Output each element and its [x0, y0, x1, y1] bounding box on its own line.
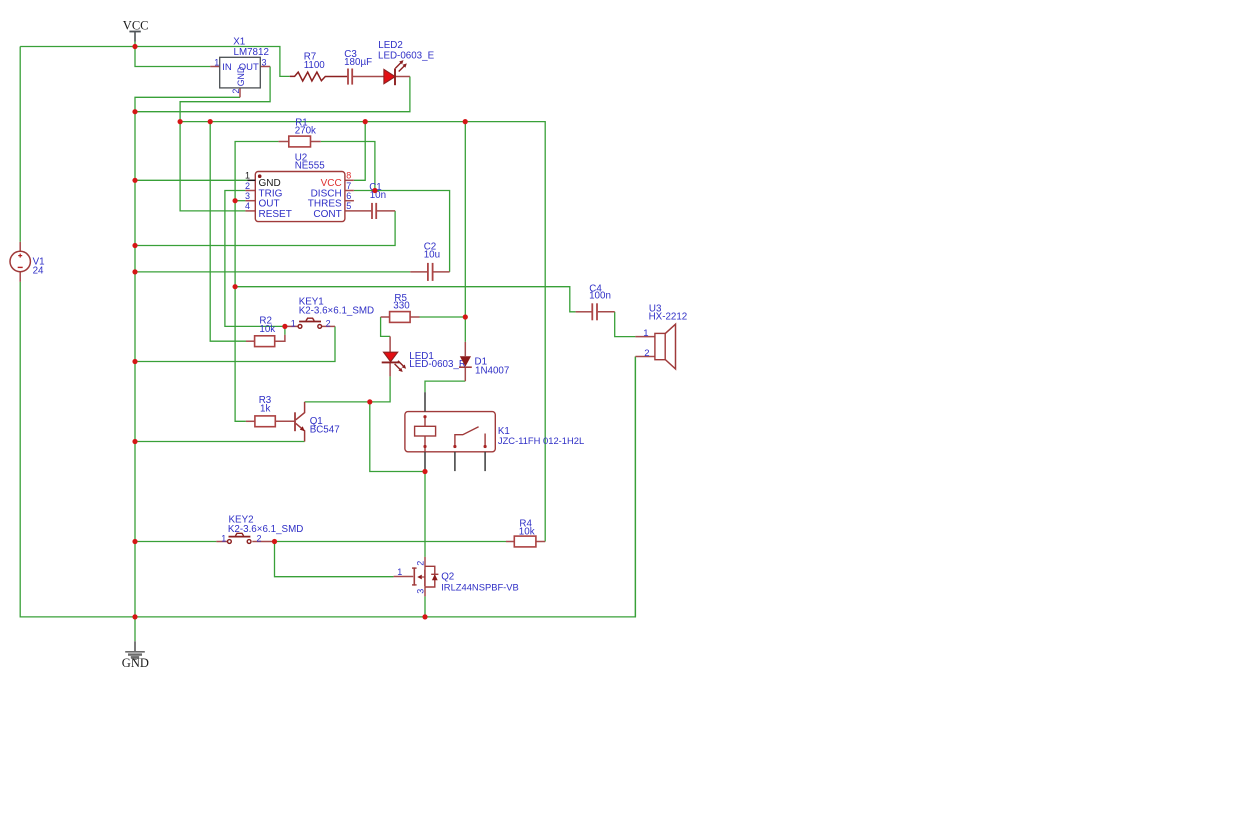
svg-text:GND: GND [236, 67, 246, 87]
svg-text:1: 1 [643, 328, 648, 339]
svg-text:CONT: CONT [313, 209, 341, 220]
svg-text:7: 7 [346, 181, 351, 191]
svg-text:2: 2 [231, 89, 241, 94]
svg-text:330: 330 [393, 301, 410, 312]
svg-text:4: 4 [245, 201, 250, 211]
svg-text:2: 2 [415, 561, 425, 566]
svg-text:JZC-11FH 012-1H2L: JZC-11FH 012-1H2L [498, 435, 584, 446]
svg-text:1: 1 [221, 533, 226, 543]
svg-text:10u: 10u [424, 250, 440, 261]
svg-text:1: 1 [214, 57, 219, 67]
svg-text:1100: 1100 [304, 60, 326, 71]
svg-text:100n: 100n [589, 291, 611, 302]
svg-text:3: 3 [415, 589, 425, 594]
svg-text:2: 2 [245, 181, 250, 191]
svg-text:K2-3.6×6.1_SMD: K2-3.6×6.1_SMD [299, 306, 374, 317]
svg-text:10k: 10k [519, 527, 535, 538]
svg-text:5: 5 [346, 201, 351, 211]
svg-text:VCC: VCC [123, 18, 149, 32]
svg-text:1k: 1k [260, 403, 270, 414]
svg-text:1: 1 [397, 567, 402, 577]
svg-text:6: 6 [346, 191, 351, 201]
svg-text:2: 2 [326, 318, 331, 328]
svg-text:8: 8 [346, 171, 351, 181]
svg-text:1: 1 [245, 171, 250, 181]
svg-text:2: 2 [257, 533, 262, 543]
svg-text:10k: 10k [259, 324, 275, 335]
svg-text:LED-0603_E: LED-0603_E [378, 50, 435, 61]
svg-text:270k: 270k [295, 126, 316, 137]
svg-text:3: 3 [262, 57, 267, 67]
svg-text:BC547: BC547 [310, 424, 340, 435]
svg-text:LED2: LED2 [378, 40, 403, 51]
svg-text:IN: IN [222, 62, 232, 73]
svg-text:24: 24 [33, 266, 44, 277]
svg-text:K2-3.6×6.1_SMD: K2-3.6×6.1_SMD [228, 524, 303, 535]
svg-text:NE555: NE555 [295, 160, 326, 171]
svg-text:1N4007: 1N4007 [475, 365, 509, 376]
svg-text:2: 2 [644, 348, 649, 359]
svg-text:LED-0603_R: LED-0603_R [409, 359, 466, 370]
svg-text:3: 3 [245, 191, 250, 201]
svg-text:RESET: RESET [259, 209, 292, 220]
svg-text:X1: X1 [233, 36, 245, 47]
svg-text:1: 1 [291, 318, 296, 328]
svg-text:LM7812: LM7812 [234, 47, 269, 58]
svg-text:IRLZ44NSPBF-VB: IRLZ44NSPBF-VB [441, 581, 519, 592]
svg-text:180µF: 180µF [344, 57, 372, 68]
svg-text:GND: GND [122, 656, 149, 670]
svg-text:HX-2212: HX-2212 [649, 311, 688, 322]
svg-text:10n: 10n [370, 190, 386, 201]
